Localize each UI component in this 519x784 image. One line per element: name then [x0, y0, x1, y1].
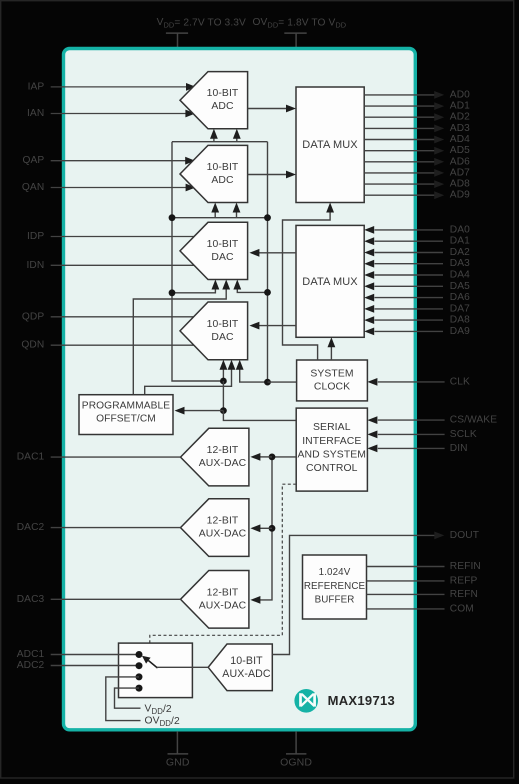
pin CS/WAKE [367, 416, 377, 424]
svg-text:SCLK: SCLK [450, 429, 477, 440]
svg-text:DAC: DAC [211, 252, 234, 263]
svg-text:DA5: DA5 [450, 281, 470, 292]
svg-text:ADC2: ADC2 [17, 660, 45, 671]
svg-text:DA3: DA3 [450, 258, 470, 269]
wire and pin DA5 [364, 282, 374, 290]
svg-text:CONTROL: CONTROL [306, 463, 358, 474]
pin COM [367, 608, 445, 610]
svg-text:INTERFACE: INTERFACE [302, 436, 361, 447]
wire system clock to left rail [268, 381, 297, 383]
svg-text:QDN: QDN [21, 340, 44, 351]
svg-text:OGND: OGND [280, 757, 312, 769]
wire and pin AD4 [364, 139, 435, 141]
svg-text:SERIAL: SERIAL [313, 422, 351, 433]
svg-text:AD1: AD1 [450, 101, 470, 112]
svg-text:AD8: AD8 [450, 179, 470, 190]
pin GND [176, 731, 178, 754]
svg-text:QAN: QAN [22, 182, 44, 193]
wire QAP input [51, 160, 188, 162]
svg-text:QAP: QAP [22, 155, 44, 166]
svg-text:1.024V: 1.024V [319, 567, 351, 578]
pin OGND [295, 731, 297, 754]
svg-text:10-BIT: 10-BIT [207, 319, 239, 330]
pin DIN [367, 445, 377, 453]
svg-text:DOUT: DOUT [450, 530, 479, 541]
wire offset feed to DAC I [133, 288, 226, 395]
pin DOUT [434, 532, 444, 540]
svg-text:CS/WAKE: CS/WAKE [450, 415, 497, 426]
svg-text:AD5: AD5 [450, 145, 470, 156]
wire and pin DA1 [364, 237, 374, 245]
switch arm [148, 661, 157, 669]
svg-text:IDP: IDP [27, 231, 44, 242]
wire and pin DA9 [364, 328, 374, 336]
wire OVDD/2 tap [115, 688, 141, 708]
svg-text:SYSTEM: SYSTEM [310, 369, 353, 380]
wire riser into ADC I left [213, 137, 215, 142]
svg-text:12-BIT: 12-BIT [207, 445, 239, 456]
block SERIAL INTERFACE AND SYSTEM CONTROL [296, 408, 367, 491]
wire serial to aux-dac rail [272, 456, 296, 458]
svg-text:AD4: AD4 [450, 134, 470, 145]
svg-text:AD3: AD3 [450, 123, 470, 134]
wire aux-adc output to DOUT [272, 535, 435, 654]
wire and pin DA2 [364, 249, 374, 257]
svg-text:IAN: IAN [27, 108, 44, 119]
svg-text:REFN: REFN [450, 589, 478, 600]
svg-text:DIN: DIN [450, 443, 468, 454]
svg-text:AUX-ADC: AUX-ADC [222, 668, 271, 680]
wire ADC1 input [51, 654, 139, 656]
wire feed aux-dac2 [259, 527, 272, 529]
wire and pin DA6 [364, 294, 374, 302]
svg-text:DA8: DA8 [450, 315, 470, 326]
svg-text:12-BIT: 12-BIT [207, 516, 239, 527]
svg-text:10-BIT: 10-BIT [207, 88, 239, 99]
wire serial control to DAC Q left [222, 368, 224, 381]
block input switch mux [119, 643, 193, 698]
svg-text:AD7: AD7 [450, 167, 470, 178]
svg-text:ADC: ADC [211, 175, 234, 186]
svg-text:DA1: DA1 [450, 236, 470, 247]
wire QAN input [51, 187, 188, 189]
svg-text:DA4: DA4 [450, 270, 470, 281]
wire IAN input [51, 113, 188, 115]
svg-text:10-BIT: 10-BIT [230, 655, 263, 667]
block DATA MUX (ADC output) [296, 87, 364, 203]
wire IDN output [51, 264, 194, 266]
wire ADC Q feed bar [172, 217, 268, 219]
svg-text:DATA MUX: DATA MUX [302, 276, 358, 288]
svg-text:AUX-DAC: AUX-DAC [199, 529, 247, 540]
block DATA MUX (DAC input) [296, 225, 364, 337]
svg-text:DA0: DA0 [450, 224, 470, 235]
wire clock rail right [267, 142, 269, 382]
wire clock to DAC Q right [240, 368, 268, 382]
svg-text:DAC: DAC [211, 332, 234, 343]
wire and pin DA8 [364, 316, 374, 324]
wire ADC2 input [51, 665, 139, 667]
junction dots ADC Q bar [169, 214, 176, 221]
wire data mux to DAC I input [258, 252, 296, 254]
wire and pin AD5 [364, 150, 435, 152]
svg-text:REFIN: REFIN [450, 561, 481, 572]
svg-text:REFP: REFP [450, 575, 478, 586]
svg-text:AD9: AD9 [450, 190, 470, 201]
pin CLK [367, 378, 377, 386]
wire switch common to aux-adc [157, 666, 208, 668]
wire and pin AD7 [364, 172, 435, 174]
svg-text:AND SYSTEM: AND SYSTEM [298, 449, 367, 460]
pin REFN [367, 593, 445, 595]
svg-text:AUX-DAC: AUX-DAC [199, 458, 247, 469]
wire and pin AD0 [364, 94, 435, 96]
OVDD pin connector [284, 32, 306, 34]
ADC U1 10-BIT ADC (I channel) [180, 72, 248, 129]
wire and pin AD6 [364, 161, 435, 163]
DAC U4 10-BIT DAC (Q channel) [180, 302, 248, 360]
block 1.024V REFERENCE BUFFER [303, 555, 367, 619]
svg-text:CLK: CLK [450, 376, 470, 387]
wire riser into ADC Q left [214, 211, 216, 218]
svg-text:DAC2: DAC2 [17, 522, 45, 533]
wire riser into ADC I right [236, 137, 238, 142]
svg-text:10-BIT: 10-BIT [207, 162, 239, 173]
logo Maxim [294, 689, 318, 713]
wire and pin AD8 [364, 183, 435, 185]
svg-text:REFERENCE: REFERENCE [304, 581, 366, 592]
svg-text:DA9: DA9 [450, 326, 470, 337]
wire dashed serial control to aux adc input mux [150, 484, 296, 656]
svg-text:AD6: AD6 [450, 156, 470, 167]
wire data mux to DAC Q input [258, 325, 296, 327]
wire clock rail left [172, 142, 223, 381]
svg-text:PROGRAMMABLE: PROGRAMMABLE [82, 400, 170, 411]
wire QDP output [51, 316, 194, 318]
wire DAC I feed left segment [172, 288, 215, 293]
svg-text:DA7: DA7 [450, 303, 470, 314]
wire and pin DA0 [364, 226, 374, 234]
svg-text:COM: COM [450, 603, 474, 614]
svg-text:10-BIT: 10-BIT [207, 239, 239, 250]
wire riser into ADC Q right [236, 211, 238, 218]
block PROGRAMMABLE OFFSET/CM [79, 395, 173, 435]
wire and pin AD3 [364, 127, 435, 129]
block SYSTEM CLOCK [297, 360, 368, 401]
svg-text:AD2: AD2 [450, 112, 470, 123]
svg-text:ADC1: ADC1 [17, 649, 45, 660]
wire and pin AD9 [364, 194, 435, 196]
wire feed aux-dac1 [259, 456, 272, 458]
svg-text:12-BIT: 12-BIT [207, 587, 239, 598]
VDD pin connector [166, 32, 188, 34]
wire DAC1 output [51, 456, 181, 458]
wire IDP output [51, 236, 194, 238]
svg-text:QDP: QDP [22, 311, 44, 322]
svg-text:OVDD= 1.8V TO VDD: OVDD= 1.8V TO VDD [253, 17, 347, 30]
wire and pin DA3 [364, 260, 374, 268]
svg-text:GND: GND [166, 757, 190, 769]
svg-text:ADC: ADC [211, 101, 234, 112]
wire offset feed to DAC Q [145, 368, 232, 395]
svg-text:IDN: IDN [26, 260, 44, 271]
DAC U3 10-BIT DAC (I channel) [180, 222, 248, 279]
DAC block 12-BIT AUX-DAC 3 [181, 571, 249, 629]
wire DAC2 output [51, 527, 181, 529]
wire control branch to programmable offset [222, 381, 224, 411]
wire feed aux-dac3 [250, 596, 260, 604]
svg-text:DA2: DA2 [450, 247, 470, 258]
wire DAC3 output [51, 598, 181, 600]
svg-text:CLOCK: CLOCK [314, 382, 350, 393]
ADC U2 10-BIT ADC (Q channel) [180, 145, 248, 202]
svg-text:AUX-DAC: AUX-DAC [199, 600, 247, 611]
wire VDD/2 tap [106, 677, 141, 721]
svg-text:IAP: IAP [28, 81, 45, 92]
chip body MAX19713 outline [64, 49, 416, 730]
pin SCLK [367, 431, 377, 439]
ADC block 10-BIT AUX-ADC [208, 644, 272, 691]
wire and pin DA7 [364, 305, 374, 313]
switch contact dots [136, 651, 143, 658]
wire IAP input [51, 86, 188, 88]
wire and pin DA4 [364, 271, 374, 279]
svg-text:DAC1: DAC1 [17, 452, 45, 463]
svg-text:BUFFER: BUFFER [315, 595, 355, 606]
svg-text:MAX19713: MAX19713 [328, 693, 395, 708]
wire control down to serial interface [223, 411, 296, 421]
pin REFIN [367, 566, 445, 568]
pin REFP [367, 580, 445, 582]
wire and pin AD2 [364, 116, 435, 118]
wire DAC I feed right segment [237, 288, 267, 292]
svg-text:DA6: DA6 [450, 292, 470, 303]
wire system clock to data mux 1 [283, 211, 331, 360]
DAC block 12-BIT AUX-DAC 1 [181, 428, 249, 486]
wire QDN output [51, 344, 194, 346]
wire ADC I clock feed bar [172, 141, 268, 143]
wire ADC Q output to data mux [248, 174, 288, 176]
svg-text:DAC3: DAC3 [17, 594, 45, 605]
wire system clock to data mux 2 [330, 345, 332, 360]
svg-text:DATA MUX: DATA MUX [302, 139, 358, 151]
DAC block 12-BIT AUX-DAC 2 [181, 499, 249, 557]
svg-text:AD0: AD0 [450, 89, 470, 100]
svg-text:OFFSET/CM: OFFSET/CM [96, 413, 156, 424]
wire ADC I output to data mux [248, 108, 288, 110]
wire and pin AD1 [364, 105, 435, 107]
